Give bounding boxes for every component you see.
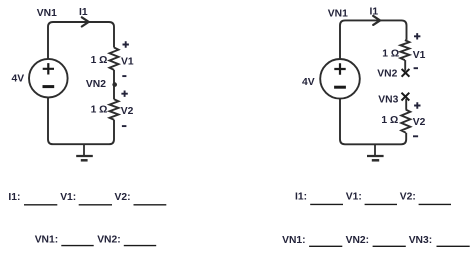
svg-text:V2:: V2: <box>115 192 131 203</box>
wire bottom loop left circuit <box>48 97 114 144</box>
answer line VN1 VN2 VN3 (right) <box>282 235 470 246</box>
svg-text:1 Ω: 1 Ω <box>91 104 108 115</box>
svg-text:VN1: VN1 <box>37 8 57 19</box>
wire between resistors (left) <box>113 70 115 99</box>
voltage source VS2 4V (right) <box>320 59 360 99</box>
plus mark V2 (right) <box>414 102 420 108</box>
svg-text:I1: I1 <box>370 7 379 18</box>
svg-text:V2: V2 <box>121 106 134 117</box>
svg-text:VN3:: VN3: <box>409 235 432 246</box>
svg-text:VN1:: VN1: <box>282 235 305 246</box>
svg-text:4V: 4V <box>12 74 25 85</box>
svg-text:V2: V2 <box>413 117 426 128</box>
wire stub from probe point VN3 (right) <box>405 99 407 110</box>
wire bottom loop right circuit <box>340 99 406 144</box>
svg-text:V1:: V1: <box>346 191 362 202</box>
voltage source VS1 4V (left) <box>29 59 68 98</box>
probe X mark node VN3 (right) <box>402 93 410 101</box>
resistor R2 right (1 ohm) zigzag <box>401 110 410 133</box>
minus mark V1 (left) <box>122 75 126 77</box>
svg-text:V1:: V1: <box>60 192 76 203</box>
svg-text:I1:: I1: <box>295 191 307 202</box>
plus mark V1 (right) <box>414 33 420 39</box>
plus mark V2 (left) <box>121 91 127 97</box>
resistor R2 left (1 ohm) zigzag <box>110 99 119 120</box>
svg-text:4V: 4V <box>302 77 315 88</box>
svg-text:VN3: VN3 <box>378 94 398 105</box>
answer line VN1 VN2 (left) <box>35 235 157 246</box>
ground symbol (right) <box>367 144 384 160</box>
node VN2 junction dot (left) <box>112 82 117 87</box>
answer line I1 V1 V2 (left) <box>8 192 166 205</box>
svg-text:I1:: I1: <box>8 192 20 203</box>
svg-text:VN1:: VN1: <box>35 235 58 246</box>
svg-text:1 Ω: 1 Ω <box>382 49 399 60</box>
svg-text:VN2:: VN2: <box>97 235 120 246</box>
wire stub to probe point VN2 (right) <box>404 60 406 71</box>
svg-text:VN2: VN2 <box>86 79 106 90</box>
svg-text:1 Ω: 1 Ω <box>381 115 398 126</box>
wire top loop left circuit <box>48 22 114 59</box>
current arrow I1 (left) <box>82 17 89 26</box>
svg-text:I1: I1 <box>79 7 88 18</box>
plus mark V1 (left) <box>123 41 129 47</box>
svg-text:VN2: VN2 <box>377 68 397 79</box>
current arrow I1 (right) <box>373 16 380 25</box>
svg-text:1 Ω: 1 Ω <box>91 55 108 66</box>
minus mark V2 (left) <box>122 125 127 127</box>
minus mark V2 (right) <box>413 135 418 137</box>
ground symbol (left) <box>76 144 93 160</box>
resistor R1 right (1 ohm) zigzag <box>400 40 409 60</box>
svg-text:V2:: V2: <box>400 191 416 202</box>
svg-text:V1: V1 <box>413 50 426 61</box>
svg-text:V1: V1 <box>121 56 134 67</box>
answer line I1 V1 V2 (right) <box>295 191 451 204</box>
probe X mark node VN2 (right) <box>402 69 410 77</box>
wire top loop right circuit <box>340 20 407 59</box>
svg-text:VN2:: VN2: <box>346 235 369 246</box>
resistor R1 left (1 ohm) zigzag <box>110 48 119 70</box>
minus mark V1 (right) <box>414 67 418 69</box>
svg-text:VN1: VN1 <box>328 8 348 19</box>
